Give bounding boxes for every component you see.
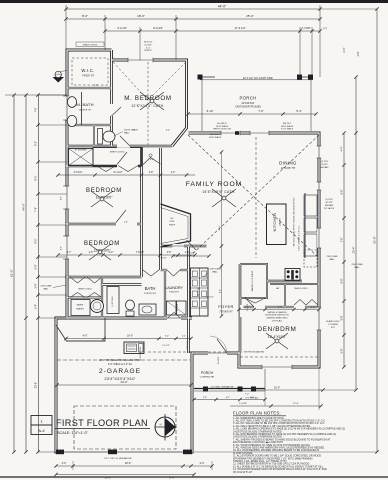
svg-text:23'-4": 23'-4" bbox=[352, 247, 356, 254]
svg-text:9'8" HT: 9'8" HT bbox=[280, 218, 282, 226]
svg-text:6'-2": 6'-2" bbox=[278, 307, 282, 309]
svg-text:61'-0": 61'-0" bbox=[10, 269, 14, 277]
svg-text:2'-2": 2'-2" bbox=[171, 172, 176, 174]
svg-text:8'-6": 8'-6" bbox=[341, 189, 344, 194]
svg-text:4'-0": 4'-0" bbox=[61, 246, 63, 250]
svg-text:32'-1 TOP LVL HDR ABOVE: 32'-1 TOP LVL HDR ABOVE bbox=[104, 457, 132, 460]
svg-text:2'-4 5/8": 2'-4 5/8" bbox=[301, 27, 310, 30]
svg-text:12' X 1/2" LVL CONT. HDR.: 12' X 1/2" LVL CONT. HDR. bbox=[243, 77, 274, 80]
svg-text:24'-0" STORAGE TRUSS 12/12 PIT: 24'-0" STORAGE TRUSS 12/12 PITCH bbox=[99, 359, 141, 362]
svg-text:4'-0": 4'-0" bbox=[146, 47, 150, 49]
svg-text:GIR TRUSS (ABOVE): GIR TRUSS (ABOVE) bbox=[244, 351, 265, 354]
svg-text:BLANK SOLID: BLANK SOLID bbox=[326, 320, 340, 323]
svg-text:13'-4"X11'0": 13'-4"X11'0" bbox=[268, 335, 287, 339]
svg-text:(2) 2X12: (2) 2X12 bbox=[325, 199, 332, 201]
svg-text:6'-0" SHELF & 2'-0" SG: 6'-0" SHELF & 2'-0" SG bbox=[108, 364, 132, 366]
svg-text:10'4X5'8 HT: 10'4X5'8 HT bbox=[144, 293, 157, 295]
svg-text:7'-8 1/2": 7'-8 1/2" bbox=[159, 257, 167, 259]
svg-text:HDR ABV: HDR ABV bbox=[321, 166, 330, 169]
svg-text:HW: HW bbox=[276, 288, 279, 290]
svg-text:4D SYP: 4D SYP bbox=[326, 202, 333, 204]
svg-text:9'-10" SHELF: 9'-10" SHELF bbox=[281, 129, 294, 131]
svg-text:12'X13'8" HT: 12'X13'8" HT bbox=[281, 167, 296, 170]
svg-text:(-/-): (-/-) bbox=[323, 28, 327, 30]
svg-text:2X6 PLUMB: 2X6 PLUMB bbox=[326, 256, 338, 258]
svg-text:7'-6": 7'-6" bbox=[258, 109, 263, 113]
svg-text:1: 1 bbox=[58, 73, 59, 75]
svg-text:2'-1": 2'-1" bbox=[182, 336, 187, 338]
svg-text:M. BEDROOM: M. BEDROOM bbox=[124, 95, 172, 102]
svg-text:WATER: WATER bbox=[77, 303, 84, 306]
svg-text:8'-0": 8'-0" bbox=[35, 238, 38, 243]
svg-text:4'-7": 4'-7" bbox=[67, 252, 72, 254]
svg-text:48" SHOWER: 48" SHOWER bbox=[75, 150, 87, 152]
svg-text:3'-9": 3'-9" bbox=[35, 283, 38, 288]
svg-text:2'-0": 2'-0" bbox=[343, 47, 346, 52]
svg-text:FOYER: FOYER bbox=[218, 304, 233, 309]
svg-text:2'-4 5/8": 2'-4 5/8" bbox=[239, 403, 247, 405]
svg-text:(7'6" HDR AT.): (7'6" HDR AT.) bbox=[246, 396, 259, 399]
svg-text:2'-8": 2'-8" bbox=[94, 85, 98, 87]
svg-text:WALL: WALL bbox=[212, 271, 218, 274]
svg-text:COVERED PAT: COVERED PAT bbox=[200, 376, 215, 379]
svg-text:16'X9' SHELF: 16'X9' SHELF bbox=[209, 137, 222, 139]
svg-text:8'-6": 8'-6" bbox=[220, 289, 222, 293]
svg-text:11'-2": 11'-2" bbox=[219, 225, 221, 230]
svg-text:4'-2 1/4": 4'-2 1/4" bbox=[117, 26, 127, 30]
svg-text:SCALE: 1/4"=1'-0": SCALE: 1/4"=1'-0" bbox=[57, 431, 89, 435]
svg-text:4'-2": 4'-2" bbox=[226, 397, 231, 399]
svg-text:2X6 PLUMB: 2X6 PLUMB bbox=[351, 264, 363, 266]
svg-text:18'-0": 18'-0" bbox=[137, 14, 145, 18]
svg-text:12'8"X14'4" CATH.: 12'8"X14'4" CATH. bbox=[131, 104, 164, 108]
svg-text:6'-9 3/4": 6'-9 3/4" bbox=[153, 26, 163, 30]
svg-text:7'-9": 7'-9" bbox=[35, 207, 38, 212]
svg-text:3'-4": 3'-4" bbox=[165, 336, 170, 338]
svg-text:FIRST FLOOR PLAN: FIRST FLOOR PLAN bbox=[56, 418, 148, 428]
svg-text:22'X10'X10': 22'X10'X10' bbox=[241, 102, 255, 105]
svg-text:4'-4 1/2": 4'-4 1/2" bbox=[177, 303, 179, 311]
svg-text:7'-6": 7'-6" bbox=[341, 237, 344, 242]
svg-text:W.I.C.: W.I.C. bbox=[81, 68, 94, 73]
svg-text:23'4"X23'4"X10': 23'4"X23'4"X10' bbox=[104, 376, 135, 381]
svg-text:2'-6": 2'-6" bbox=[357, 51, 360, 56]
svg-text:16'X9' SHELF: 16'X9' SHELF bbox=[281, 126, 294, 128]
svg-text:2'-8": 2'-8" bbox=[149, 172, 154, 174]
svg-text:WALL: WALL bbox=[354, 266, 360, 269]
svg-text:8'-0": 8'-0" bbox=[82, 14, 88, 18]
svg-text:2X6 PLUMB: 2X6 PLUMB bbox=[40, 286, 52, 288]
svg-text:7'-6": 7'-6" bbox=[35, 107, 38, 112]
svg-text:A-4: A-4 bbox=[38, 428, 45, 433]
svg-text:4'-4": 4'-4" bbox=[341, 146, 344, 151]
svg-text:2'-8": 2'-8" bbox=[134, 129, 138, 131]
svg-text:SHELF & ROD: SHELF & ROD bbox=[83, 45, 98, 47]
svg-text:11'-6": 11'-6" bbox=[293, 403, 299, 405]
svg-text:8'-10": 8'-10" bbox=[207, 109, 214, 113]
svg-text:4'-2 1/2": 4'-2 1/2" bbox=[187, 253, 195, 255]
svg-text:THIRTY ON FLOOR: THIRTY ON FLOOR bbox=[213, 129, 232, 131]
svg-text:FLOOR PLAN NOTES:: FLOOR PLAN NOTES: bbox=[233, 410, 281, 415]
svg-text:2'-4": 2'-4" bbox=[124, 221, 128, 223]
svg-text:12'4"X10'0": 12'4"X10'0" bbox=[96, 196, 114, 200]
svg-text:10'0X9'8" HT: 10'0X9'8" HT bbox=[79, 110, 92, 112]
svg-text:10'-0": 10'-0" bbox=[127, 335, 133, 338]
svg-text:9 1/2" OVERH. & 2'-0" O.C.: 9 1/2" OVERH. & 2'-0" O.C. bbox=[299, 225, 301, 251]
svg-text:7'6X5'8 HT: 7'6X5'8 HT bbox=[169, 292, 180, 294]
svg-text:A-4 DBL R: A-4 DBL R bbox=[210, 133, 220, 136]
svg-text:61'-0": 61'-0" bbox=[373, 236, 377, 243]
svg-text:48'-8 1/2" DUAL PITCH TRUSS, 8: 48'-8 1/2" DUAL PITCH TRUSS, 8X2.4X12 PI… bbox=[293, 197, 296, 246]
svg-text:3'-8": 3'-8" bbox=[167, 252, 172, 254]
svg-text:12'6"X10'0": 12'6"X10'0" bbox=[94, 249, 112, 253]
svg-text:SHELF & ROD: SHELF & ROD bbox=[294, 288, 308, 290]
svg-text:17'-3 1/4": 17'-3 1/4" bbox=[234, 26, 245, 30]
svg-text:MONOXIDE DETECTOR: MONOXIDE DETECTOR bbox=[265, 315, 289, 317]
svg-text:SHELF & ROD: SHELF & ROD bbox=[110, 152, 125, 154]
svg-text:LIN 16" DP: LIN 16" DP bbox=[198, 286, 200, 297]
svg-text:5'-9": 5'-9" bbox=[35, 264, 38, 269]
svg-text:PORCH: PORCH bbox=[239, 96, 256, 101]
svg-text:CANTILEVER TRUSSES: CANTILEVER TRUSSES bbox=[235, 106, 261, 109]
svg-text:9'-2": 9'-2" bbox=[35, 141, 38, 146]
svg-text:FAMILY ROOM: FAMILY ROOM bbox=[186, 181, 242, 188]
svg-text:SHELF & ROD: SHELF & ROD bbox=[78, 289, 92, 291]
svg-text:5'-9": 5'-9" bbox=[341, 315, 344, 320]
svg-text:4'-0": 4'-0" bbox=[83, 335, 88, 338]
svg-text:4'-4 1/2": 4'-4 1/2" bbox=[247, 303, 249, 311]
svg-text:WALL: WALL bbox=[329, 258, 335, 261]
svg-text:(INTERCONNECTED): (INTERCONNECTED) bbox=[267, 318, 288, 320]
svg-text:16'X9': 16'X9' bbox=[169, 221, 175, 223]
svg-text:TO SWING: TO SWING bbox=[328, 324, 339, 326]
svg-text:2X6 PLUMB: 2X6 PLUMB bbox=[209, 269, 221, 271]
svg-text:(5) 2X12 W 8'-10".: (5) 2X12 W 8'-10". bbox=[233, 471, 253, 474]
svg-text:7'-8 1/2": 7'-8 1/2" bbox=[136, 252, 145, 254]
svg-text:BEDROOM: BEDROOM bbox=[84, 241, 120, 247]
svg-text:6'-8": 6'-8" bbox=[341, 278, 344, 283]
svg-text:7'-0": 7'-0" bbox=[245, 394, 249, 396]
svg-text:4'-0": 4'-0" bbox=[61, 196, 63, 200]
svg-text:4'-4 1/2": 4'-4 1/2" bbox=[206, 296, 214, 298]
svg-text:M. BATH: M. BATH bbox=[76, 102, 93, 107]
svg-text:PANTRY 16" D SHELF: PANTRY 16" D SHELF bbox=[251, 270, 254, 291]
svg-text:3'-0": 3'-0" bbox=[62, 462, 67, 465]
svg-text:WALL: WALL bbox=[43, 288, 49, 291]
svg-text:4'-0 3/4": 4'-0 3/4" bbox=[144, 44, 152, 46]
svg-text:5'-6": 5'-6" bbox=[341, 348, 344, 353]
svg-text:12'4 GIRD. HDR ABOVE: 12'4 GIRD. HDR ABOVE bbox=[211, 385, 235, 388]
svg-text:LAUNDRY: LAUNDRY bbox=[165, 286, 184, 290]
svg-text:25'-0": 25'-0" bbox=[246, 14, 254, 18]
svg-text:6'-0": 6'-0" bbox=[150, 159, 154, 161]
svg-text:BATH: BATH bbox=[145, 286, 156, 291]
svg-text:SMOKE & CARBON: SMOKE & CARBON bbox=[268, 311, 287, 314]
svg-text:A-4 DBL R: A-4 DBL R bbox=[217, 122, 227, 125]
svg-text:HDR ABV: HDR ABV bbox=[325, 204, 334, 207]
svg-text:8'-0 1/2": 8'-0 1/2" bbox=[218, 356, 220, 364]
svg-text:DEN/BDRM: DEN/BDRM bbox=[258, 326, 297, 333]
svg-text:4'-5 1/2": 4'-5 1/2" bbox=[74, 171, 83, 174]
svg-text:BEDROOM: BEDROOM bbox=[86, 188, 122, 194]
svg-text:W 2 JACKS: W 2 JACKS bbox=[324, 207, 335, 210]
svg-text:2-GARAGE: 2-GARAGE bbox=[99, 368, 141, 375]
svg-text:8'-0": 8'-0" bbox=[35, 175, 38, 180]
svg-text:3'-4": 3'-4" bbox=[166, 129, 170, 131]
svg-text:N: N bbox=[160, 423, 162, 427]
svg-text:WALL: WALL bbox=[124, 132, 130, 135]
svg-text:30'10 1/2: 30'10 1/2 bbox=[144, 42, 153, 44]
svg-text:5'-9": 5'-9" bbox=[35, 304, 38, 309]
svg-text:SOFFIT: SOFFIT bbox=[144, 50, 152, 52]
svg-text:16'X9' SHELF: 16'X9' SHELF bbox=[216, 126, 229, 128]
svg-text:5'-4": 5'-4" bbox=[296, 109, 301, 113]
svg-text:16 DP SHELF: 16 DP SHELF bbox=[112, 294, 114, 306]
svg-text:8'-4 1/2": 8'-4 1/2" bbox=[114, 171, 123, 174]
svg-text:SHELF: SHELF bbox=[169, 224, 176, 226]
svg-text:4D SYP: 4D SYP bbox=[321, 164, 328, 166]
svg-text:4'-4": 4'-4" bbox=[310, 307, 314, 309]
svg-text:8'-0 1/2": 8'-0 1/2" bbox=[187, 341, 189, 349]
svg-text:KITCHEN: KITCHEN bbox=[273, 213, 277, 232]
svg-text:RW 56'-2: RW 56'-2 bbox=[283, 123, 292, 125]
svg-text:7'4X5'9" HT: 7'4X5'9" HT bbox=[82, 76, 95, 78]
svg-text:9'-0": 9'-0" bbox=[200, 462, 205, 465]
svg-text:HEATER: HEATER bbox=[76, 307, 84, 310]
svg-text:PORCH: PORCH bbox=[201, 371, 214, 375]
svg-text:A-5: A-5 bbox=[171, 217, 174, 220]
svg-text:33'-6": 33'-6" bbox=[35, 382, 38, 388]
svg-text:DINING: DINING bbox=[279, 161, 297, 166]
svg-text:2'-1 1/2": 2'-1 1/2" bbox=[162, 345, 170, 347]
svg-text:2'-5": 2'-5" bbox=[203, 397, 208, 399]
svg-text:(2) 2X12: (2) 2X12 bbox=[321, 161, 328, 163]
svg-text:44'-6": 44'-6" bbox=[22, 203, 26, 210]
svg-text:44'-0": 44'-0" bbox=[218, 4, 227, 8]
svg-text:(TYPICAL): (TYPICAL) bbox=[272, 319, 282, 322]
svg-text:19'-0": 19'-0" bbox=[125, 461, 132, 465]
svg-text:15'5"X19'5" CATH.: 15'5"X19'5" CATH. bbox=[202, 190, 235, 194]
svg-text:16'-0": 16'-0" bbox=[274, 386, 280, 389]
